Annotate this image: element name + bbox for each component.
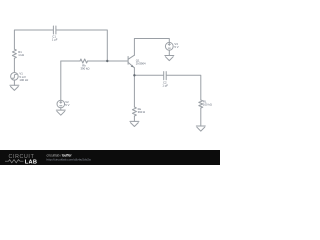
wire Rb to Q1 base xyxy=(88,60,129,62)
wire C2 to RL column xyxy=(167,75,201,100)
svg-text:1 kΩ: 1 kΩ xyxy=(18,53,24,57)
label V3 xyxy=(174,42,178,49)
wire emitter node down to Re xyxy=(133,75,135,107)
transistor Q1 xyxy=(128,55,134,68)
label Q1 xyxy=(136,58,146,65)
resistor R1 xyxy=(12,49,16,59)
capacitor C1 xyxy=(53,26,56,34)
wire V1 to ground xyxy=(13,80,15,85)
resistor Rb xyxy=(80,59,88,63)
wire emitter to node xyxy=(133,68,135,76)
svg-text:http://circuitlab.com/c8zbu5dv: http://circuitlab.com/c8zbu5dv2a xyxy=(47,158,91,162)
wire top rail from input column to C1 xyxy=(14,30,53,49)
label RL xyxy=(203,99,212,106)
label C1 xyxy=(52,34,58,41)
svg-text:2N3904: 2N3904 xyxy=(136,62,146,66)
logo resistor zigzag xyxy=(5,160,24,163)
wire base net xyxy=(61,60,80,62)
svg-text:5 V: 5 V xyxy=(174,45,178,49)
svg-text:LAB: LAB xyxy=(25,159,37,165)
label R1 xyxy=(18,50,24,57)
wire RL to ground xyxy=(200,108,202,126)
label Rb xyxy=(81,64,90,71)
label Re xyxy=(138,107,146,114)
wire R1 to V1 xyxy=(13,59,15,73)
wire collector rail to V3 xyxy=(134,39,169,56)
voltage source V1 (sine) xyxy=(11,73,19,81)
svg-text:1 µF: 1 µF xyxy=(162,84,168,88)
voltage source V2 xyxy=(57,100,65,108)
node junction emitter xyxy=(133,74,135,76)
resistor RL xyxy=(199,100,203,108)
footer bar xyxy=(0,150,220,165)
wire C1 to base drop xyxy=(56,30,107,61)
ground below RL xyxy=(196,126,205,131)
label V2 xyxy=(65,100,69,107)
svg-text:5 V: 5 V xyxy=(65,103,69,107)
svg-text:390 kΩ: 390 kΩ xyxy=(81,67,90,71)
ground below V1 xyxy=(10,85,19,90)
wire V2 to ground xyxy=(60,108,62,110)
wire emitter node to C2 xyxy=(134,74,163,76)
label V1 xyxy=(19,72,28,82)
ground below V3 xyxy=(165,56,174,61)
wire V3 to ground xyxy=(168,50,170,55)
svg-text:100 kΩ: 100 kΩ xyxy=(203,102,212,106)
wire Re to ground xyxy=(133,116,135,121)
svg-text:1 µF: 1 µF xyxy=(52,37,58,41)
svg-text:100 Hz: 100 Hz xyxy=(19,78,28,82)
voltage source V3 xyxy=(165,42,173,50)
resistor Re xyxy=(132,107,136,116)
wire V2 lead xyxy=(60,61,62,100)
node junction base xyxy=(106,60,108,62)
label C2 xyxy=(162,81,168,88)
svg-text:390 Ω: 390 Ω xyxy=(138,110,146,114)
capacitor C2 xyxy=(164,72,167,80)
CircuitLab logo wordmark xyxy=(5,154,37,165)
ground below Re xyxy=(130,121,139,126)
ground below V2 xyxy=(56,110,65,115)
